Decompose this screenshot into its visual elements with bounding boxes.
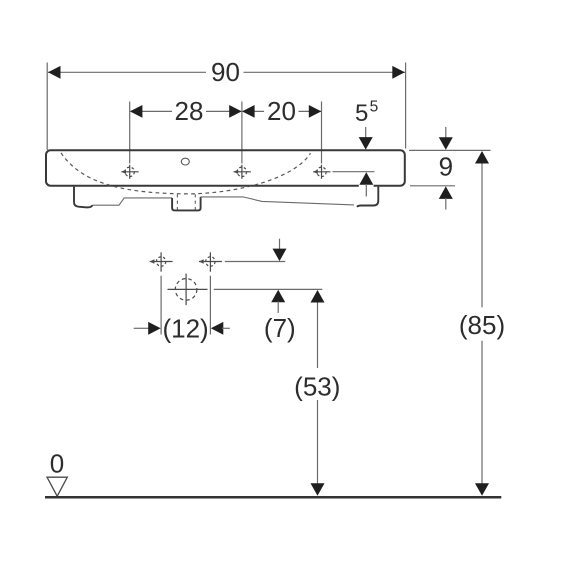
svg-text:20: 20 xyxy=(267,96,296,126)
dimension (85): vertical line upper segment xyxy=(481,152,483,307)
svg-text:(7): (7) xyxy=(264,313,296,343)
dimension 90: right arrow xyxy=(392,66,405,79)
underside: left foot (heavy) xyxy=(74,187,92,208)
dimension (53): bottom arrow (down) xyxy=(311,483,325,496)
floor datum triangle xyxy=(47,477,67,496)
dimension 9: lower extension line xyxy=(410,185,455,187)
dimension 20: left arrow xyxy=(242,105,255,118)
underside: right foot (heavy) xyxy=(357,187,378,207)
dimension 9: upper extension line xyxy=(409,149,491,151)
dimension 28: dimension line segments xyxy=(131,110,173,112)
tap hole 2 xyxy=(234,165,251,179)
drain hole horizontal crosshair xyxy=(168,288,208,290)
overflow hole xyxy=(181,158,189,165)
svg-text:90: 90 xyxy=(211,57,240,87)
tap hole 3 xyxy=(313,165,330,179)
underside: right shelf line (thin) xyxy=(201,197,354,205)
dimension (12): right arrow tail xyxy=(222,327,230,329)
drain hole circle (dashed) xyxy=(175,279,197,301)
dimension 9: lower arrow tail xyxy=(445,198,447,210)
dimension (7): lower arrow tail xyxy=(277,301,279,313)
drain leader line xyxy=(214,288,322,290)
wall hole left (cross with dashed circle) xyxy=(150,252,173,271)
dimension 5.5: upper arrow (points down at basin top) xyxy=(359,137,373,150)
underside: drain trap box (heavy) xyxy=(172,197,201,211)
dimension 5.5: leader line at tap hole height xyxy=(333,171,375,173)
dimension 28/20: middle extension line xyxy=(241,102,243,164)
dimension 20: dimension line segments xyxy=(243,110,265,112)
drain hidden edge right (dashed) xyxy=(194,194,196,209)
dimension (53): top arrow (up) xyxy=(311,290,325,303)
drain hidden edge left (dashed) xyxy=(176,194,178,209)
dimension 90: dimension line right segment xyxy=(244,71,406,73)
dimension 28: left extension line xyxy=(129,102,131,164)
basin bowl hidden contour (dashed) xyxy=(61,153,311,194)
dimension (12): left arrow tail xyxy=(134,327,149,329)
svg-text:28: 28 xyxy=(175,96,204,126)
dimension 5.5: upper arrow tail xyxy=(365,127,367,139)
dimension 90: right extension line xyxy=(405,63,407,149)
dimension 90: left arrow xyxy=(48,66,61,79)
floor line xyxy=(45,496,501,499)
drain hole vertical crosshair xyxy=(185,274,187,306)
dimension 9: upper arrow tail xyxy=(445,127,447,139)
svg-text:9: 9 xyxy=(439,151,453,181)
dimension (7): lower arrow (up at drain line) xyxy=(271,290,285,303)
dimension 5.5: lower arrow (points up at tap hole line) xyxy=(359,172,373,185)
dimension (85): bottom arrow (down) xyxy=(475,483,489,496)
tap hole 1 (dashed circle with crosshair) xyxy=(121,165,138,179)
dimension (12): left extension line xyxy=(160,276,162,335)
dimension 90: dimension line left segment xyxy=(48,71,206,73)
dimension 5.5: lower arrow tail xyxy=(365,184,367,197)
svg-text:(85): (85) xyxy=(459,310,505,340)
dimension (85): top arrow (up) xyxy=(475,151,489,164)
svg-text:0: 0 xyxy=(50,448,64,478)
dimension (7): upper arrow (down at wall hole line) xyxy=(273,249,287,262)
dimension 9: upper arrow (down) xyxy=(439,137,453,150)
svg-text:(12): (12) xyxy=(162,313,208,343)
dimension 28: right arrow xyxy=(229,105,242,118)
wall holes leader line xyxy=(225,261,285,263)
dimension 9: lower arrow (up) xyxy=(439,186,453,199)
dimension (12): right extension line xyxy=(209,276,211,335)
dimension (12): right arrow (points left) xyxy=(211,322,224,335)
dimension (85): vertical line lower segment xyxy=(481,341,483,494)
dimension (7): upper arrow tail xyxy=(279,239,281,251)
svg-text:(53): (53) xyxy=(294,372,340,402)
underside: left shelf line (thin) xyxy=(92,198,172,205)
dimension 28: left arrow xyxy=(130,105,143,118)
washbasin body outline xyxy=(46,150,405,185)
dimension 20: right extension line xyxy=(321,102,323,164)
dimension (12): left arrow (points right) xyxy=(148,322,161,335)
dimension 90: left extension line xyxy=(46,63,48,151)
dimension (53): vertical line upper segment xyxy=(317,291,319,368)
wall hole right (cross with dashed circle) xyxy=(199,252,222,271)
dimension 20: right arrow xyxy=(309,105,322,118)
dimension (53): vertical line lower segment xyxy=(317,400,319,494)
gap in body bottom edge for arrow tail xyxy=(359,184,374,188)
